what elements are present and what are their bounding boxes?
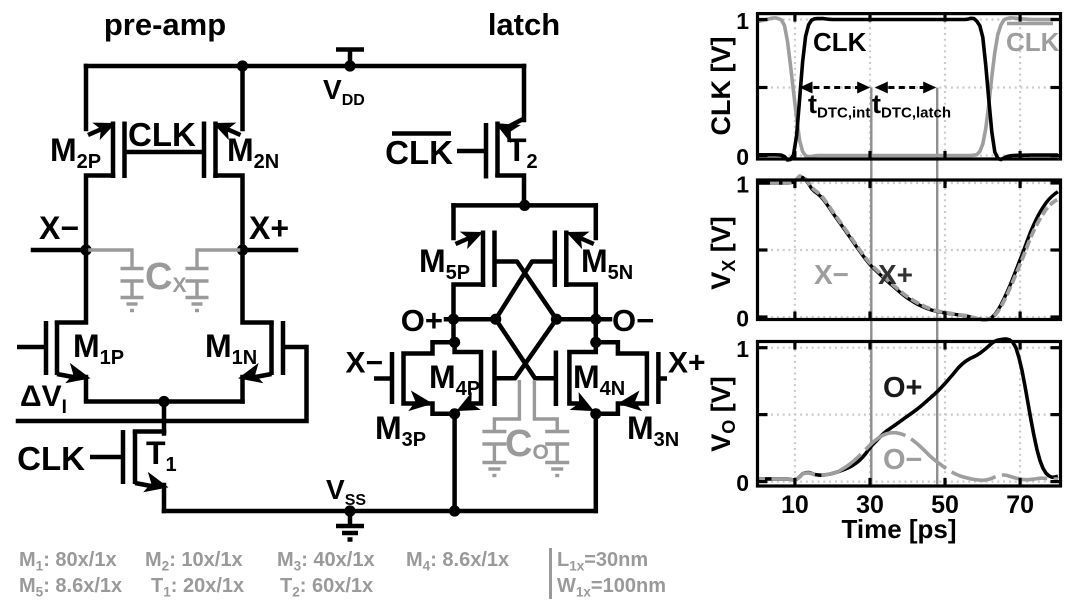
wire: VDD top rail [86, 64, 524, 69]
curve O+ (black, plot 3) [758, 339, 1058, 480]
svg-text:X−: X− [345, 347, 383, 380]
wire: M4P gate to O- (cross-couple lower) [495, 319, 557, 378]
svg-text:O+: O+ [401, 303, 443, 338]
svg-text:70: 70 [1006, 491, 1034, 519]
capacitor CX right (gray) [186, 250, 243, 311]
svg-text:M5: 8.6x/1x: M5: 8.6x/1x [19, 575, 122, 600]
svg-text:CLK: CLK [385, 134, 453, 171]
svg-text:CLK: CLK [17, 440, 85, 477]
transistor M2P (PMOS, clock precharge left) [86, 66, 125, 250]
svg-text:X−: X− [39, 210, 79, 246]
curve X+ (black, plot 2) [758, 177, 1058, 320]
transistor M5N (PMOS cross-coupled right) [555, 205, 596, 319]
svg-text:X+: X+ [249, 210, 289, 246]
svg-text:0: 0 [736, 470, 749, 496]
grid plot 3 [760, 344, 1059, 485]
ground VSS [344, 505, 355, 516]
svg-text:M4: 8.6x/1x: M4: 8.6x/1x [406, 549, 509, 574]
transistor pair M3P/M4P (NMOS left) [374, 319, 495, 516]
wire: M5N gate to O+ (cross-couple) [496, 262, 555, 320]
svg-text:CLK: CLK [1006, 27, 1060, 57]
frame plot 1 [758, 14, 1061, 159]
svg-text:1: 1 [736, 336, 749, 362]
svg-text:O+: O+ [883, 372, 923, 404]
svg-text:Time [ps]: Time [ps] [841, 514, 956, 544]
separator bar [549, 548, 552, 599]
wire: M5P gate to O- (cross-couple) [495, 262, 557, 320]
wire: VSS bottom rail [164, 509, 596, 514]
wire: M4N gate to O+ (cross-couple lower) [496, 319, 556, 378]
node: T2 drain junction [519, 200, 530, 211]
marker line t=47.8ps [936, 88, 938, 485]
ground (CX right) [186, 296, 209, 299]
svg-text:0: 0 [736, 306, 749, 332]
frame plot 3 [758, 342, 1061, 487]
svg-text:VX [V]: VX [V] [706, 216, 739, 290]
transistor pair M3N/M4N (NMOS right) [556, 319, 667, 511]
svg-text:CLK [V]: CLK [V] [706, 37, 736, 136]
curve O- (gray, plot 3) [758, 433, 1058, 481]
capacitor CO left (gray) [482, 380, 519, 476]
svg-text:O−: O− [612, 303, 654, 338]
node: junction M2N drain branch on VDD rail [237, 60, 248, 71]
svg-text:1: 1 [736, 8, 749, 34]
node: tail junction of input pair [158, 396, 169, 407]
ground (CX left) [121, 296, 144, 299]
power symbol VDD [348, 50, 353, 66]
transistor T1 (NMOS tail, CLK) [90, 402, 169, 512]
capacitor CO right (gray) [534, 380, 569, 476]
svg-text:W1x=100nm: W1x=100nm [557, 575, 666, 600]
grid plot 1 [760, 16, 1059, 157]
svg-text:X−: X− [814, 259, 849, 290]
svg-text:10: 10 [781, 491, 809, 519]
ground (CO right) [545, 461, 569, 464]
M3P gate bar + X- lead [390, 352, 395, 404]
frame plot 2 [758, 180, 1061, 320]
svg-text:ΔVI: ΔVI [20, 380, 67, 418]
curve CLKbar (gray, plot 1) [758, 18, 1058, 157]
M3N gate bar + X+ lead [656, 352, 661, 404]
svg-text:X+: X+ [878, 259, 913, 290]
node X+ [243, 248, 297, 253]
transistor M2N (PMOS, clock precharge right) [204, 66, 243, 250]
arrow tDTC,int [800, 82, 871, 94]
svg-text:CLK: CLK [128, 116, 196, 153]
svg-text:latch: latch [488, 7, 560, 42]
capacitor CX left (gray) [86, 250, 144, 311]
svg-text:X+: X+ [668, 347, 706, 380]
svg-text:1: 1 [736, 172, 749, 198]
transistor M1N (NMOS input right) [237, 250, 306, 402]
curve CLK (black, plot 1) [758, 18, 1058, 160]
curve X- (gray dashed, plot 2) [758, 176, 1058, 320]
wire: latch source rail [454, 203, 596, 208]
svg-text:M2: 10x/1x: M2: 10x/1x [145, 549, 243, 574]
transistor M1P (NMOS input left) [17, 250, 243, 402]
wire: CLK gate line of M2P/M2N [125, 150, 205, 155]
wire: input dVI line [18, 347, 307, 421]
node X- [33, 248, 86, 253]
transistor M5P (PMOS cross-coupled left) [454, 205, 495, 319]
svg-text:0: 0 [736, 144, 749, 170]
svg-text:M3: 40x/1x: M3: 40x/1x [277, 549, 375, 574]
svg-text:CLK: CLK [813, 27, 867, 57]
svg-text:VO [V]: VO [V] [706, 376, 739, 452]
svg-text:pre-amp: pre-amp [104, 7, 226, 42]
transistor T2 (PMOS, CLKbar) [457, 66, 524, 205]
arrow tDTC,latch [875, 82, 936, 94]
marker line t=30ps [870, 88, 872, 485]
node O- wire [556, 317, 610, 322]
M4N gate bar [554, 351, 559, 407]
grid plot 2 [760, 182, 1059, 318]
ground (CO left) [482, 461, 506, 464]
M4P gate bar [492, 351, 497, 407]
svg-text:O−: O− [883, 444, 923, 476]
svg-text:M1: 80x/1x: M1: 80x/1x [19, 549, 117, 574]
node O+ wire [446, 317, 496, 322]
